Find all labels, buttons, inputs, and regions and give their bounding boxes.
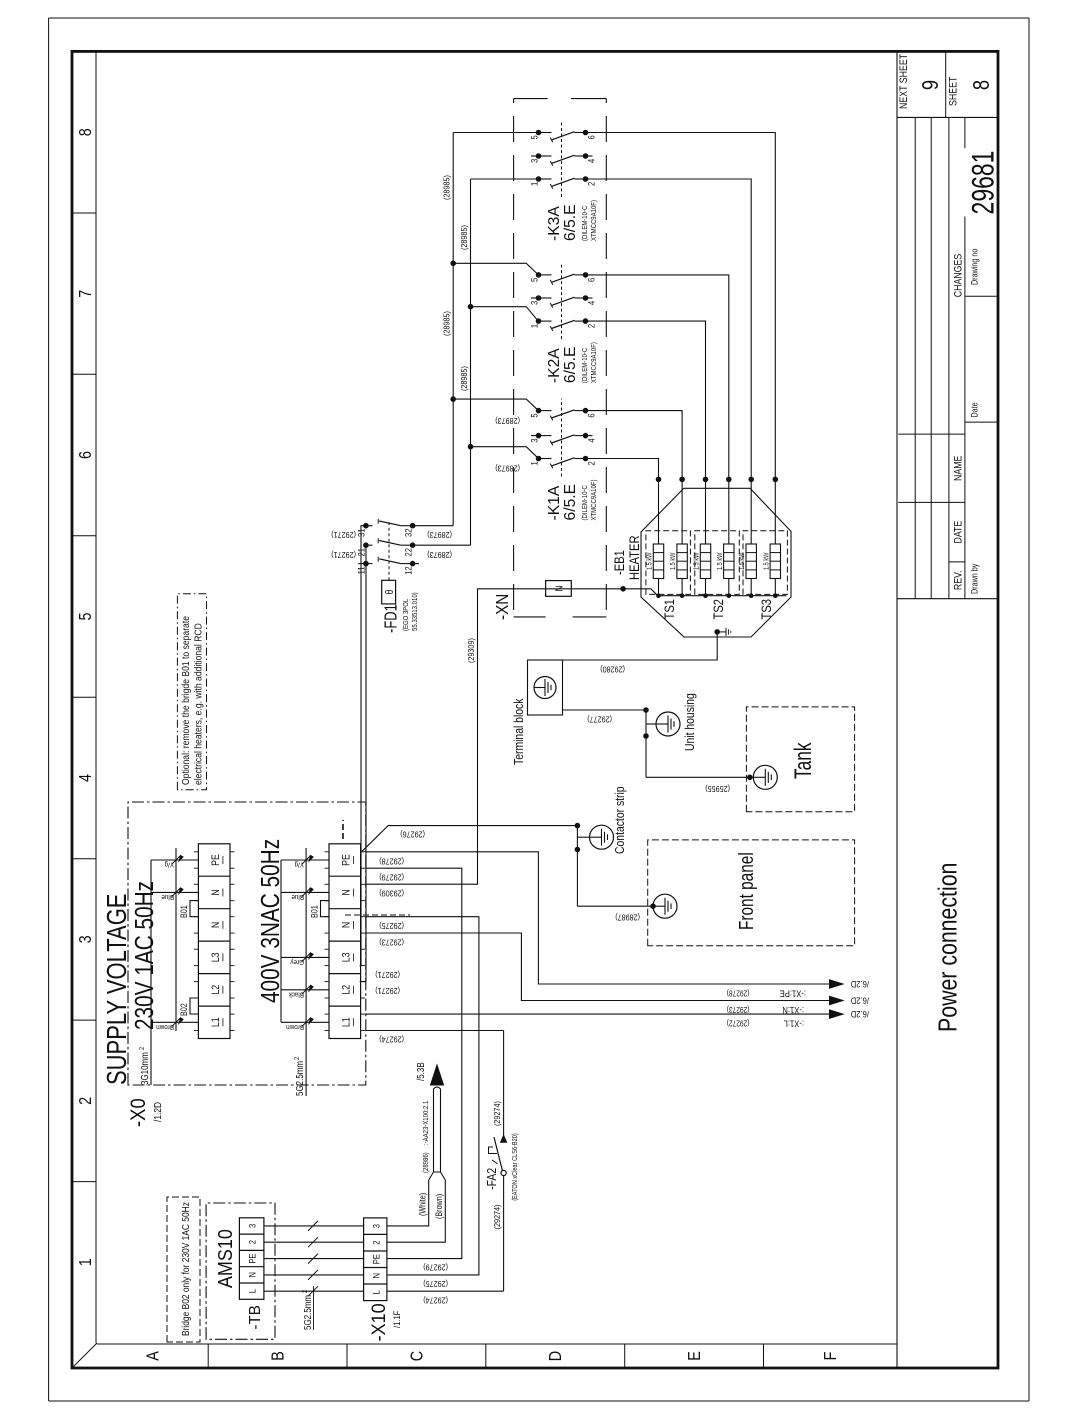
- svg-text:XTMCC9A10F): XTMCC9A10F): [590, 200, 598, 241]
- svg-text:L: L: [247, 1289, 258, 1293]
- svg-text::-AA23-X100:2.1: :-AA23-X100:2.1: [422, 1101, 430, 1145]
- svg-text:3G10mm: 3G10mm: [139, 1052, 150, 1085]
- svg-text:8: 8: [969, 80, 994, 90]
- svg-text:Brown: Brown: [286, 1023, 304, 1030]
- svg-text:5: 5: [76, 612, 96, 620]
- svg-text:A: A: [143, 1351, 163, 1361]
- svg-text:L3: L3: [341, 952, 353, 962]
- svg-text:(29273): (29273): [379, 937, 404, 946]
- svg-text:11: 11: [356, 566, 367, 574]
- svg-text:(EGO 3POL: (EGO 3POL: [402, 599, 410, 631]
- svg-text:Power connection: Power connection: [934, 863, 964, 1032]
- svg-text:(28973): (28973): [427, 550, 452, 559]
- svg-text:(29274): (29274): [492, 1204, 502, 1229]
- svg-text:1.5 kW: 1.5 kW: [716, 553, 724, 570]
- svg-text:PE: PE: [341, 854, 353, 866]
- svg-text:/1.2D: /1.2D: [152, 1102, 164, 1122]
- svg-text::-X1:L: :-X1:L: [783, 1018, 804, 1029]
- svg-text:F: F: [821, 1352, 841, 1361]
- svg-text:Bridge B02 only for 230V 1AC 5: Bridge B02 only for 230V 1AC 50Hz: [180, 1202, 192, 1336]
- svg-text:3: 3: [529, 438, 540, 443]
- svg-text:4: 4: [586, 158, 597, 163]
- svg-text:SHEET: SHEET: [948, 77, 960, 106]
- svg-text:N: N: [554, 585, 566, 591]
- svg-text:2: 2: [371, 1240, 382, 1244]
- svg-text:-FD1: -FD1: [382, 604, 402, 633]
- svg-text:5G2.5mm: 5G2.5mm: [294, 1061, 305, 1096]
- svg-text:/1.1F: /1.1F: [391, 1311, 402, 1328]
- svg-text:Brown: Brown: [156, 1023, 174, 1030]
- svg-text:2: 2: [586, 324, 597, 329]
- svg-text:3: 3: [529, 300, 540, 305]
- svg-text:5G2.5mm: 5G2.5mm: [302, 1295, 313, 1330]
- svg-text:CHANGES: CHANGES: [952, 253, 964, 297]
- svg-text:Unit housing: Unit housing: [683, 693, 697, 751]
- svg-text:(25955): (25955): [705, 784, 730, 793]
- svg-text:(29278): (29278): [379, 856, 404, 865]
- svg-text:2: 2: [76, 1097, 96, 1105]
- svg-text:(DILEM-10-C: (DILEM-10-C: [581, 485, 589, 520]
- svg-text:C: C: [407, 1351, 427, 1362]
- svg-text:(28985): (28985): [459, 225, 469, 250]
- svg-text:6: 6: [586, 135, 597, 140]
- svg-text:DATE: DATE: [952, 520, 964, 543]
- svg-text:(29279): (29279): [379, 873, 404, 882]
- svg-text:Blue: Blue: [291, 893, 304, 900]
- svg-text:Front panel: Front panel: [735, 852, 758, 930]
- svg-text:6: 6: [586, 277, 597, 282]
- svg-text:N: N: [210, 889, 222, 895]
- svg-text:(29280): (29280): [600, 664, 625, 673]
- svg-text:Date: Date: [970, 402, 980, 418]
- svg-text:1.5 kW: 1.5 kW: [763, 553, 771, 570]
- svg-text:(29271): (29271): [375, 986, 400, 995]
- svg-text:XTMCC9A10F): XTMCC9A10F): [590, 342, 598, 383]
- svg-text:B01: B01: [179, 905, 189, 918]
- svg-text:(White): (White): [418, 1193, 428, 1216]
- svg-text:Y/g: Y/g: [294, 860, 304, 867]
- svg-text:1: 1: [529, 461, 540, 466]
- svg-text:(29271): (29271): [331, 550, 356, 559]
- svg-text:-K2A: -K2A: [546, 348, 563, 383]
- svg-text:N: N: [247, 1272, 258, 1277]
- svg-text:REV.: REV.: [952, 570, 964, 590]
- svg-text:(29274): (29274): [379, 1034, 404, 1043]
- svg-text:21: 21: [356, 548, 367, 557]
- svg-text:L: L: [371, 1290, 382, 1294]
- svg-text:-TB: -TB: [247, 1305, 264, 1329]
- svg-text::-X1:PE: :-X1:PE: [779, 988, 806, 999]
- svg-text:-K1A: -K1A: [546, 485, 563, 520]
- svg-text:1.5 kW: 1.5 kW: [739, 553, 747, 570]
- svg-text:3: 3: [371, 1224, 382, 1228]
- svg-text:6/5.E: 6/5.E: [562, 347, 579, 384]
- svg-text:NAME: NAME: [952, 455, 964, 481]
- svg-text:TS3: TS3: [759, 599, 774, 620]
- svg-text:Tank: Tank: [790, 742, 816, 779]
- svg-text:(29276): (29276): [400, 829, 425, 838]
- svg-text:400V 3NAC 50Hz: 400V 3NAC 50Hz: [256, 839, 285, 1003]
- svg-text:Contactor strip: Contactor strip: [613, 786, 627, 854]
- svg-text:(Brown): (Brown): [434, 1194, 444, 1219]
- svg-text:3: 3: [529, 158, 540, 163]
- svg-text:Drawn by: Drawn by: [970, 563, 980, 594]
- svg-text:(29275): (29275): [423, 1279, 448, 1288]
- svg-text:/5.3B: /5.3B: [415, 1062, 426, 1081]
- svg-text:E: E: [685, 1351, 705, 1361]
- svg-text:B: B: [268, 1351, 288, 1361]
- svg-text:3: 3: [247, 1224, 258, 1228]
- svg-text:1.5 kW: 1.5 kW: [693, 553, 701, 570]
- svg-text:B01: B01: [310, 905, 320, 918]
- svg-text:3: 3: [76, 935, 96, 943]
- svg-text:4: 4: [76, 774, 96, 782]
- svg-text:(29278): (29278): [727, 988, 750, 998]
- svg-text:(29271): (29271): [331, 530, 356, 539]
- svg-text:NEXT SHEET: NEXT SHEET: [898, 54, 910, 109]
- svg-text:Y/g: Y/g: [164, 860, 174, 867]
- svg-text:8: 8: [76, 128, 96, 136]
- svg-text:(29309): (29309): [466, 638, 476, 663]
- svg-text:5: 5: [529, 277, 540, 282]
- svg-text:/6.2D: /6.2D: [851, 979, 869, 990]
- svg-text:N: N: [341, 889, 353, 895]
- svg-text:XTMCC9A10F): XTMCC9A10F): [590, 480, 598, 521]
- svg-text:(28973): (28973): [495, 416, 520, 425]
- svg-text:(29309): (29309): [379, 889, 404, 898]
- svg-text:-EB1: -EB1: [612, 550, 627, 575]
- svg-text:31: 31: [356, 528, 367, 537]
- svg-text:N: N: [371, 1273, 382, 1278]
- svg-text:29681: 29681: [965, 151, 1000, 215]
- svg-text:L1: L1: [341, 1017, 353, 1027]
- svg-text:SUPPLY VOLTAGE: SUPPLY VOLTAGE: [102, 894, 133, 1085]
- svg-text:1.5 kW: 1.5 kW: [670, 553, 678, 570]
- svg-text:N: N: [210, 922, 222, 928]
- svg-text:2: 2: [586, 461, 597, 466]
- svg-text:2: 2: [293, 1056, 301, 1060]
- svg-text:L1: L1: [210, 1017, 222, 1027]
- svg-text:B02: B02: [179, 1003, 189, 1016]
- svg-text:Blue: Blue: [161, 893, 174, 900]
- svg-text:(EATON xClear CLS6-B20): (EATON xClear CLS6-B20): [511, 1133, 519, 1201]
- svg-text:(29274): (29274): [423, 1295, 448, 1304]
- svg-text:22: 22: [403, 548, 414, 557]
- svg-text:Grey: Grey: [290, 958, 304, 965]
- svg-text:4: 4: [586, 438, 597, 443]
- svg-text:TS1: TS1: [662, 599, 677, 620]
- svg-text:6/5.E: 6/5.E: [562, 204, 579, 241]
- svg-text:230V 1AC 50Hz: 230V 1AC 50Hz: [130, 881, 159, 1030]
- svg-text:PE: PE: [210, 854, 222, 866]
- svg-text:5: 5: [529, 135, 540, 140]
- svg-text:1: 1: [76, 1258, 96, 1266]
- svg-text:D: D: [546, 1351, 566, 1361]
- svg-text:(28973): (28973): [495, 463, 520, 472]
- svg-text:2: 2: [586, 181, 597, 186]
- svg-text:-X10: -X10: [368, 1303, 390, 1341]
- svg-text:7: 7: [76, 290, 96, 298]
- svg-text:32: 32: [403, 528, 414, 537]
- svg-text:(29275): (29275): [379, 921, 404, 930]
- svg-text:6: 6: [76, 451, 96, 459]
- svg-text:AMS10: AMS10: [215, 1229, 237, 1288]
- svg-text:5: 5: [529, 413, 540, 418]
- svg-text:(29274): (29274): [492, 1101, 502, 1126]
- svg-text:55.33513.010): 55.33513.010): [411, 592, 419, 631]
- svg-text:θ: θ: [384, 589, 396, 594]
- svg-text:(28985): (28985): [442, 175, 452, 200]
- svg-text:6/5.E: 6/5.E: [562, 484, 579, 521]
- svg-text:L2: L2: [210, 985, 222, 995]
- svg-text:N: N: [341, 922, 353, 928]
- svg-text:2: 2: [301, 1289, 309, 1293]
- svg-text:6: 6: [586, 413, 597, 418]
- svg-text:(DILEM-10-C: (DILEM-10-C: [581, 206, 589, 241]
- svg-text:Black: Black: [288, 990, 304, 997]
- svg-text:/6.2D: /6.2D: [851, 995, 869, 1006]
- svg-text::-X1:N: :-X1:N: [782, 1005, 804, 1016]
- svg-text:(28973): (28973): [427, 530, 452, 539]
- svg-text:12: 12: [403, 566, 414, 575]
- svg-text:1.5 kW: 1.5 kW: [646, 553, 654, 570]
- svg-text:2: 2: [247, 1240, 258, 1244]
- svg-text:-FA2: -FA2: [485, 1168, 499, 1190]
- svg-text:4: 4: [586, 300, 597, 305]
- svg-text:(28985): (28985): [442, 311, 452, 336]
- svg-text:Drawing no: Drawing no: [970, 248, 980, 285]
- svg-text:(DILEM-10-C: (DILEM-10-C: [581, 348, 589, 383]
- svg-text:PE: PE: [371, 1254, 382, 1264]
- svg-text:HEATER: HEATER: [627, 535, 642, 580]
- svg-text:(29272): (29272): [727, 1018, 750, 1028]
- svg-text:PE: PE: [247, 1253, 258, 1263]
- svg-text:-X0: -X0: [127, 1098, 150, 1127]
- svg-text:Optional: remove the brigde B0: Optional: remove the brigde B01 to separ…: [180, 616, 191, 785]
- svg-text:-K3A: -K3A: [546, 206, 563, 241]
- svg-text:L3: L3: [210, 952, 222, 962]
- svg-text:9: 9: [918, 80, 943, 90]
- svg-text:-XN: -XN: [492, 594, 512, 620]
- svg-text:(28987): (28987): [615, 912, 640, 921]
- svg-text:1: 1: [529, 181, 540, 186]
- svg-text:(29271): (29271): [375, 970, 400, 979]
- svg-text:electrical heaters, e.g. with: electrical heaters, e.g. with additional…: [193, 623, 204, 785]
- svg-text:(28986): (28986): [422, 1152, 430, 1173]
- svg-text:(29273): (29273): [727, 1005, 750, 1015]
- svg-text:(29277): (29277): [587, 714, 612, 723]
- svg-text:(29279): (29279): [423, 1262, 448, 1271]
- svg-text:/6.2D: /6.2D: [851, 1009, 869, 1020]
- svg-text:TS2: TS2: [711, 599, 726, 620]
- svg-text:1: 1: [529, 324, 540, 329]
- svg-text:Terminal block: Terminal block: [512, 698, 526, 765]
- svg-text:2: 2: [138, 1046, 146, 1050]
- svg-text:(28985): (28985): [459, 366, 469, 391]
- svg-text:L2: L2: [341, 985, 353, 995]
